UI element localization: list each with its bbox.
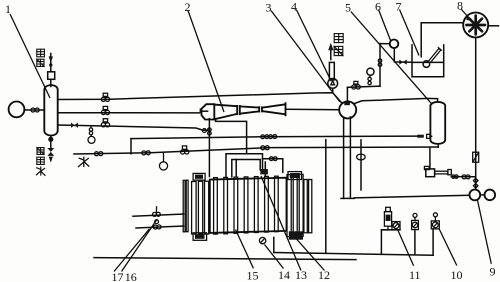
svg-text:11: 11	[409, 268, 421, 282]
svg-text:9: 9	[490, 265, 496, 279]
svg-text:3: 3	[266, 1, 272, 15]
svg-text:17: 17	[112, 270, 124, 282]
svg-text:12: 12	[318, 268, 330, 282]
svg-text:7: 7	[396, 0, 402, 14]
svg-text:10: 10	[451, 268, 463, 282]
svg-text:5: 5	[345, 1, 351, 15]
svg-text:4: 4	[291, 0, 297, 14]
svg-text:2: 2	[185, 0, 191, 14]
svg-text:13: 13	[295, 268, 307, 282]
svg-text:16: 16	[125, 270, 137, 282]
svg-text:1: 1	[5, 2, 11, 16]
svg-text:8: 8	[457, 0, 463, 13]
svg-text:6: 6	[375, 0, 381, 14]
svg-text:14: 14	[278, 268, 290, 282]
svg-text:15: 15	[247, 269, 259, 282]
